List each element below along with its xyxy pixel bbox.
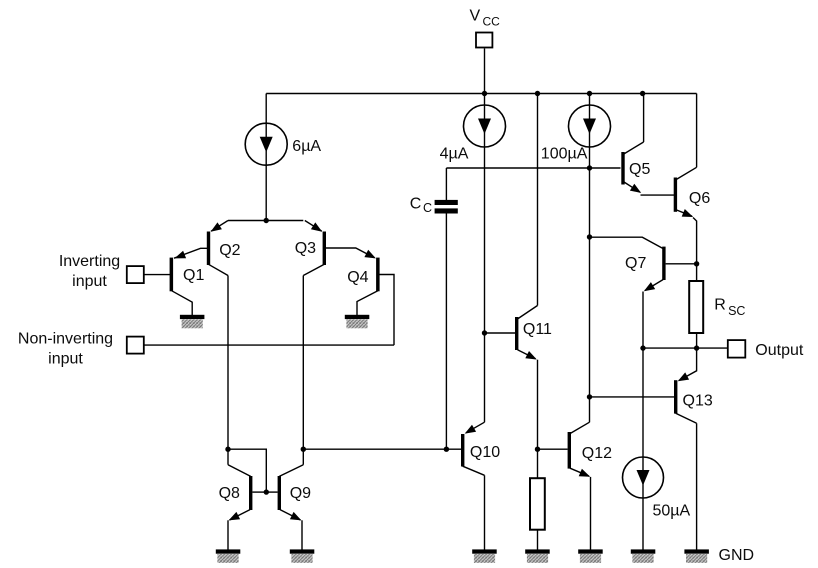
label Q10 [470, 444, 500, 461]
svg-text:input: input [48, 350, 83, 367]
label Q4 [347, 269, 368, 286]
svg-text:Q3: Q3 [295, 240, 316, 257]
transistor Q10 [461, 422, 485, 551]
transistor Q3 [303, 221, 326, 276]
transistor Q5 [621, 142, 674, 195]
current source 100uA [569, 105, 611, 147]
label VCC [470, 8, 501, 29]
svg-text:Q7: Q7 [625, 255, 646, 272]
label Q8 [219, 485, 240, 502]
wire mirror base tie [228, 449, 266, 492]
label RSC [714, 296, 745, 318]
svg-text:Q10: Q10 [470, 444, 500, 461]
ground Q10 collector [472, 549, 497, 562]
svg-text:GND: GND [719, 547, 755, 564]
svg-text:Q8: Q8 [219, 485, 240, 502]
label non-inverting input [18, 331, 113, 368]
label Q7 [625, 255, 646, 272]
node Q7 base junction [694, 261, 699, 266]
svg-text:Output: Output [755, 342, 804, 359]
label Q11 [523, 321, 552, 338]
wire Q6 collector [696, 94, 698, 168]
node Q9 collector junction [301, 447, 306, 452]
node Q7 collector junction [587, 234, 592, 239]
svg-text:C: C [410, 196, 422, 213]
node Q8 collector junction [225, 447, 230, 452]
label 50uA [653, 503, 691, 520]
ground Q8 emitter [216, 549, 241, 562]
svg-text:50µA: 50µA [653, 503, 691, 520]
svg-text:Q6: Q6 [689, 190, 710, 207]
label 100uA [541, 146, 588, 163]
svg-text:6µA: 6µA [292, 138, 321, 155]
current source 6uA [245, 123, 287, 165]
node Q13 base junction [587, 394, 592, 399]
svg-text:4µA: 4µA [440, 146, 469, 163]
wire R1 bottom [537, 531, 539, 552]
wire Q12 base [538, 448, 568, 450]
wire top supply bus [266, 93, 696, 95]
wire VCC stem [484, 49, 486, 94]
node RSC output junction [694, 345, 699, 350]
ground R1 [525, 549, 550, 562]
transistor Q7 [590, 237, 697, 291]
label Q6 [689, 190, 710, 207]
svg-text:Q9: Q9 [290, 485, 311, 502]
transistor Q1 [144, 248, 207, 315]
ground 50uA [631, 549, 656, 562]
svg-text:C: C [423, 201, 432, 215]
label 4uA [440, 146, 469, 163]
resistor R1 [530, 478, 545, 530]
node Q12 base junction [535, 447, 540, 452]
wire 4uA rail [484, 94, 486, 423]
svg-text:Q12: Q12 [582, 445, 612, 462]
transistor Q2 [207, 221, 228, 276]
label Q5 [629, 161, 650, 178]
svg-text:100µA: 100µA [541, 146, 588, 163]
transistor Q8 [228, 465, 266, 551]
label Q2 [219, 242, 240, 259]
wire non-inverting input [144, 344, 394, 346]
svg-text:Inverting: Inverting [59, 253, 120, 270]
current source 50uA [623, 457, 664, 498]
terminal VCC [476, 33, 492, 48]
wire second stage input [303, 448, 461, 450]
wire Q5 collector [643, 94, 645, 143]
wire Q7 emitter rail [642, 292, 644, 552]
terminal inverting input [127, 266, 144, 283]
node bus-Q5 junction [640, 91, 645, 96]
capacitor CC [435, 200, 458, 214]
label CC [410, 196, 432, 216]
wire RSC bottom [696, 334, 698, 348]
label GND [719, 547, 755, 564]
node 100uA-Q5 base junction [587, 165, 592, 170]
node differential pair tail [264, 218, 269, 223]
wire Cc top lead [445, 168, 447, 200]
svg-text:input: input [72, 273, 107, 290]
svg-text:Q4: Q4 [347, 269, 368, 286]
node Q7 emitter output junction [640, 345, 645, 350]
transistor Q6 [674, 167, 697, 280]
svg-text:Q1: Q1 [183, 267, 204, 284]
transistor Q11 [485, 306, 538, 360]
terminal non-inverting input [127, 337, 144, 354]
wire output [643, 347, 728, 349]
wire tail crossbar [228, 220, 303, 222]
wire Q11 emitter [537, 360, 539, 478]
wire Q5 base [446, 167, 620, 169]
node Q8 Q9 base junction [264, 489, 269, 494]
label 6uA [292, 138, 321, 155]
svg-text:Q5: Q5 [629, 161, 650, 178]
wire Cc bottom lead [445, 214, 447, 450]
svg-text:Q13: Q13 [683, 393, 713, 410]
label output [755, 342, 804, 359]
ground Q9 emitter [290, 549, 315, 562]
resistor RSC [689, 281, 703, 333]
label Q3 [295, 240, 316, 257]
svg-text:R: R [714, 296, 726, 313]
wire 100uA rail [589, 94, 591, 423]
ground Q12 emitter [578, 549, 603, 562]
svg-text:Q11: Q11 [523, 321, 552, 338]
ground Q4 collector [345, 315, 370, 329]
current source 4uA [464, 105, 506, 147]
label Q9 [290, 485, 311, 502]
label Q12 [582, 445, 612, 462]
svg-text:V: V [470, 8, 481, 25]
transistor Q13 [590, 348, 697, 423]
transistor Q9 [266, 465, 303, 551]
label inverting input [59, 253, 120, 290]
svg-text:Q2: Q2 [219, 242, 240, 259]
wire Q3 collector to Q9 [302, 276, 304, 465]
svg-text:Non-inverting: Non-inverting [18, 331, 113, 348]
wire Q13 collector [696, 423, 698, 551]
node bus-Q11 junction [535, 91, 540, 96]
node bus-100uA junction [587, 91, 592, 96]
label Q13 [683, 393, 713, 410]
wire Q2 collector to Q8 [227, 276, 229, 465]
terminal output [728, 340, 746, 358]
svg-text:CC: CC [483, 15, 501, 29]
node Q11 base junction [482, 330, 487, 335]
node bus-4uA junction [482, 91, 487, 96]
ground Q13 collector [684, 549, 709, 562]
svg-text:SC: SC [728, 304, 745, 318]
transistor Q12 [568, 422, 591, 551]
wire 6uA source lead [265, 94, 267, 221]
wire Q11 collector [537, 94, 539, 306]
transistor Q4 [326, 248, 394, 345]
label Q1 [183, 267, 204, 284]
node Cc bottom junction [444, 447, 449, 452]
ground Q1 collector [180, 315, 205, 329]
